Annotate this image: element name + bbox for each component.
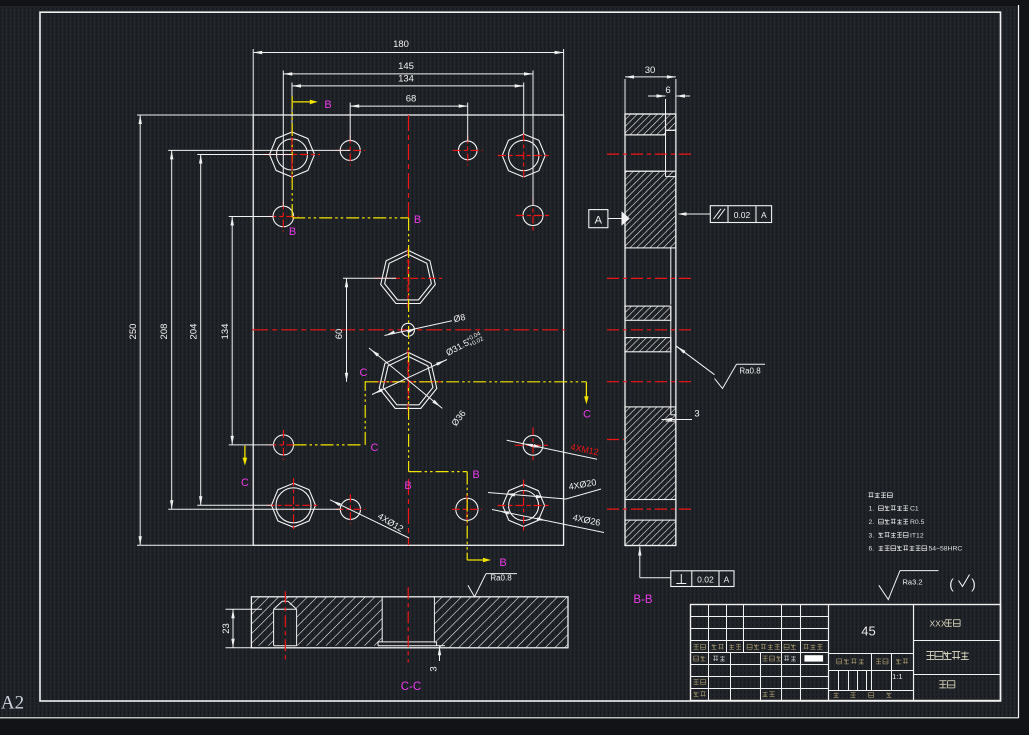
side view outline xyxy=(625,114,676,546)
svg-text:C: C xyxy=(583,409,591,421)
front view plate outline xyxy=(253,115,563,545)
svg-text:208: 208 xyxy=(159,324,170,340)
guide hole top-right (octagon pair) xyxy=(502,134,545,177)
section C right arrow xyxy=(585,382,587,398)
main horizontal centerline xyxy=(252,329,565,331)
svg-text:3: 3 xyxy=(429,666,440,671)
side view centerline row4 left stub xyxy=(607,439,624,441)
label phi36 leader diameter xyxy=(369,348,442,408)
plate top edge extension xyxy=(137,114,253,116)
Ra0.8 above C-C xyxy=(468,574,486,597)
svg-text:0.02: 0.02 xyxy=(734,210,751,220)
dim 134 top xyxy=(291,83,293,133)
svg-text:3.: 3. xyxy=(869,532,875,539)
svg-text:C-C: C-C xyxy=(401,681,421,693)
label 4xphi12 leader xyxy=(330,500,409,538)
plate bottom edge extension xyxy=(137,544,253,546)
main vertical centerline lower segment xyxy=(408,479,410,545)
dim 3 side xyxy=(661,419,692,421)
svg-text:(: ( xyxy=(949,577,954,592)
svg-text:B-B: B-B xyxy=(633,594,653,606)
svg-text:180: 180 xyxy=(393,39,409,50)
center upper octagon pair xyxy=(381,250,436,303)
svg-text:1.: 1. xyxy=(869,506,875,513)
dim 60 xyxy=(346,278,348,382)
svg-text:C: C xyxy=(241,477,249,489)
Ra3.2 general xyxy=(879,571,900,600)
svg-text:B: B xyxy=(324,99,331,111)
datum A flag xyxy=(589,210,608,228)
svg-text:A: A xyxy=(761,210,767,220)
leader to bottom face xyxy=(638,547,641,556)
svg-text:1:1: 1:1 xyxy=(892,672,902,681)
C-C red centerlines xyxy=(284,591,286,660)
dim 145 xyxy=(282,71,284,207)
svg-text:A2: A2 xyxy=(1,693,24,714)
svg-text:B: B xyxy=(499,557,506,569)
svg-text:C: C xyxy=(371,442,379,454)
svg-text:B: B xyxy=(289,226,296,238)
svg-text:3: 3 xyxy=(694,409,699,420)
svg-text:): ) xyxy=(971,577,976,592)
svg-text:A: A xyxy=(595,215,603,227)
title block outline xyxy=(691,605,1001,701)
svg-text:6.: 6. xyxy=(869,546,875,553)
dim 250 xyxy=(139,115,141,545)
dim 68 xyxy=(349,103,351,141)
side view centerlines red xyxy=(607,153,693,155)
label phi8 leader xyxy=(385,321,453,336)
svg-text:Ra0.8: Ra0.8 xyxy=(490,574,512,583)
dim 134 left xyxy=(231,217,233,445)
svg-text:Ra0.8: Ra0.8 xyxy=(739,367,761,376)
svg-text:B: B xyxy=(404,480,411,492)
label phi31.5 text xyxy=(444,330,485,360)
svg-text:Ra3.2: Ra3.2 xyxy=(903,578,923,587)
dim 208 xyxy=(171,150,173,509)
main vertical centerline upper segment xyxy=(408,115,410,218)
technical notes xyxy=(869,492,874,494)
hole row2 right circle xyxy=(523,206,543,226)
svg-text:A: A xyxy=(724,575,730,585)
row4 labels xyxy=(694,643,699,645)
dim 3 bottom xyxy=(439,646,441,661)
label 4xM12 leader xyxy=(507,440,597,459)
right section lines xyxy=(914,640,1001,642)
title block left grid columns rows5-8 xyxy=(708,653,710,701)
red centerline overlays on section line xyxy=(408,259,410,297)
label 4xphi26 leader xyxy=(492,510,604,533)
hole bottom small circle left xyxy=(340,499,360,519)
section line B-B path xyxy=(291,96,293,218)
C-C pin xyxy=(273,609,275,645)
hole top-right small circle xyxy=(458,141,477,160)
svg-text:204: 204 xyxy=(189,324,200,340)
svg-text:0.02: 0.02 xyxy=(697,575,714,585)
side view counterbore step lines xyxy=(666,129,676,131)
C-C outline xyxy=(251,597,568,648)
svg-text:30: 30 xyxy=(645,65,656,76)
C-C hatch right part xyxy=(434,597,568,648)
hole bottom small circle right xyxy=(456,498,478,520)
middle section lines xyxy=(829,653,914,655)
title block left grid columns rows1-4 xyxy=(708,605,710,653)
svg-text:60: 60 xyxy=(334,329,345,340)
label 4xphi20 leader xyxy=(488,493,566,500)
svg-text:B: B xyxy=(472,469,479,481)
hole row4 right circle M12 xyxy=(523,435,543,455)
svg-text:23: 23 xyxy=(221,623,232,634)
parallelism tolerance frame xyxy=(710,206,771,223)
section B bottom arrow xyxy=(467,559,484,561)
svg-text:C: C xyxy=(360,367,368,379)
title block left grid rows xyxy=(691,616,829,618)
hole row4 left circle xyxy=(274,435,294,455)
svg-text:6: 6 xyxy=(665,85,670,96)
dim 30 xyxy=(624,79,626,114)
section C left arrow xyxy=(244,446,246,459)
svg-text:54~58HRC: 54~58HRC xyxy=(929,546,963,553)
dim 180 xyxy=(252,49,254,115)
svg-text:R0.5: R0.5 xyxy=(910,519,925,526)
center main octagon pair phi36 xyxy=(379,352,437,408)
guide hole top-left (octagon pair) xyxy=(270,132,315,177)
guide hole bottom-right octagon pair xyxy=(503,485,545,527)
hole top-left small circle xyxy=(340,140,360,160)
svg-text:IT12: IT12 xyxy=(910,532,924,539)
dim 6 xyxy=(665,99,667,114)
dim 204 xyxy=(200,155,202,506)
row5 labels xyxy=(694,655,699,657)
C-C hatch left part xyxy=(251,597,382,646)
row7 row8 labels xyxy=(694,679,699,681)
svg-text:2.: 2. xyxy=(869,519,875,526)
dim 23 xyxy=(232,609,234,648)
side view hatch blocks xyxy=(625,114,666,135)
svg-text:145: 145 xyxy=(398,61,414,72)
Ra0.8 side view xyxy=(676,346,684,352)
svg-text:250: 250 xyxy=(128,324,139,340)
section line C-C path xyxy=(294,444,364,446)
sheet outer trim edge xyxy=(1018,5,1020,718)
side view middle wall lines xyxy=(670,248,672,305)
perpendicularity tolerance frame xyxy=(671,571,734,587)
C-C center hole xyxy=(381,597,383,642)
section B top arrow xyxy=(293,101,311,103)
svg-text:XXX: XXX xyxy=(929,619,946,629)
svg-text:68: 68 xyxy=(406,94,417,105)
title block middle/right dividers xyxy=(828,605,830,701)
center phi8 hole xyxy=(402,323,415,336)
svg-text:45: 45 xyxy=(861,624,875,639)
svg-text:B: B xyxy=(414,214,421,226)
svg-text:134: 134 xyxy=(220,324,231,340)
label phi31.5 leader diameter xyxy=(372,360,447,395)
guide hole bottom-left octagon pair xyxy=(272,483,316,527)
hole row2 left circle xyxy=(273,206,294,227)
svg-text:C1: C1 xyxy=(910,506,919,513)
svg-text:134: 134 xyxy=(398,74,414,85)
middle row labels xyxy=(837,658,842,660)
